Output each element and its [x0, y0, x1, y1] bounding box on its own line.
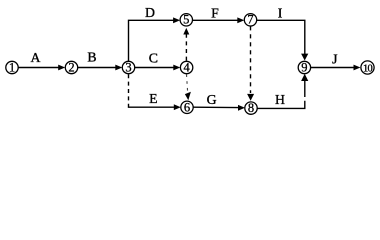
- node 10: [361, 61, 374, 74]
- wire F 5-7: [193, 19, 238, 21]
- node 9: [298, 61, 310, 73]
- wire C 3-4: [135, 67, 174, 69]
- arrowhead dummy 4-5 up into 5: [183, 28, 189, 35]
- wire dummy 4-6 dashed: [187, 74, 188, 91]
- node 6: [181, 101, 193, 113]
- svg-text:J: J: [332, 52, 338, 67]
- node 1: [6, 61, 18, 73]
- node 8: [245, 102, 257, 114]
- node 3: [122, 61, 134, 73]
- wire D 3-corner-5: [129, 20, 175, 61]
- wire dummy 4-5 dashed: [185, 34, 187, 61]
- svg-text:6: 6: [184, 100, 190, 114]
- node 7: [244, 14, 256, 26]
- node 4: [180, 61, 192, 73]
- svg-text:B: B: [87, 50, 96, 65]
- wire dummy 7-8 dashed: [250, 26, 252, 93]
- wire J 9-10: [311, 67, 354, 69]
- wire G 6-8: [193, 106, 238, 108]
- arrowhead dummy 4-6 down into 6: [185, 92, 191, 101]
- svg-text:9: 9: [301, 60, 307, 74]
- arrowhead J: [354, 65, 361, 71]
- arrowhead I down into 9: [301, 54, 308, 61]
- wire H 8-corner-9: [257, 101, 304, 109]
- arrowhead C: [173, 65, 180, 71]
- svg-text:A: A: [31, 50, 41, 65]
- svg-text:I: I: [278, 6, 283, 21]
- arrowhead F: [237, 17, 244, 23]
- wire E dashed vertical 3-corner: [128, 74, 130, 106]
- wire I 7-corner-9: [257, 20, 305, 54]
- arrowhead dummy 7-8 down into 8: [247, 94, 254, 101]
- svg-text:G: G: [207, 92, 217, 107]
- arrowhead H up into 9: [301, 74, 308, 81]
- svg-text:1: 1: [9, 60, 15, 74]
- svg-text:E: E: [149, 91, 157, 106]
- svg-text:10: 10: [363, 63, 372, 74]
- svg-text:7: 7: [247, 13, 253, 27]
- svg-text:4: 4: [183, 60, 190, 74]
- svg-text:5: 5: [183, 13, 189, 27]
- svg-text:C: C: [149, 50, 158, 65]
- arrowhead B: [115, 65, 122, 71]
- svg-text:H: H: [275, 92, 285, 107]
- wire B 2-3: [78, 67, 117, 69]
- svg-text:F: F: [211, 6, 219, 21]
- svg-text:3: 3: [125, 60, 131, 74]
- arrowhead G: [238, 105, 245, 111]
- svg-text:2: 2: [68, 60, 74, 74]
- arrowhead A: [58, 65, 65, 71]
- svg-text:D: D: [145, 5, 155, 20]
- arrowhead D: [173, 17, 180, 23]
- arrowhead E: [174, 104, 181, 110]
- wire E solid horizontal corner-6: [129, 106, 175, 109]
- node 5: [180, 14, 192, 26]
- svg-text:8: 8: [248, 101, 254, 115]
- wire A 1-2: [18, 67, 59, 69]
- node 2: [65, 61, 77, 73]
